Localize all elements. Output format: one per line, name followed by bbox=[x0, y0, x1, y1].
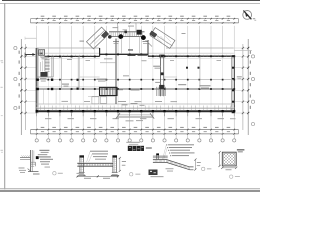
inner frame left gray line bbox=[4, 3, 6, 189]
north arrow symbol bbox=[243, 11, 252, 20]
entrance step dashes bbox=[113, 41, 119, 43]
detail 4 column section bbox=[222, 152, 236, 166]
stair flight hatch bbox=[45, 59, 50, 61]
east stair walls bbox=[159, 56, 161, 96]
south center text cluster bbox=[122, 103, 128, 106]
inner frame top gray line bbox=[0, 2, 260, 4]
west interior columns bbox=[37, 79, 39, 81]
lobby glazing verticals bbox=[121, 38, 123, 54]
bottom column grid bubbles bbox=[36, 134, 38, 139]
toilet room boxes bbox=[88, 95, 116, 97]
south room window jambs bbox=[43, 90, 45, 104]
corridor north edge line bbox=[36, 79, 234, 81]
lobby front wall bbox=[100, 53, 148, 55]
grid extension lines to side dimensions bbox=[21, 47, 36, 49]
detail 1 label bbox=[53, 172, 56, 175]
south window sill line bbox=[36, 103, 234, 105]
canopy edge line north bbox=[36, 47, 99, 49]
canopy center slab hatch bbox=[109, 31, 145, 33]
bottom dimension lines with ticks and figures bbox=[31, 129, 239, 131]
outer top dark border line bbox=[2, 0, 260, 2]
left entrance arrow bbox=[25, 54, 35, 56]
corridor south wall line bbox=[36, 88, 234, 90]
west second partition bbox=[77, 56, 79, 89]
north wall east wing bbox=[148, 55, 234, 57]
detail 3 label bbox=[202, 167, 205, 170]
north wall inner face line bbox=[45, 58, 100, 60]
window mullion marks bbox=[40, 55, 42, 57]
inner frame bottom gray line bbox=[0, 188, 260, 190]
left dimension lines with ticks bbox=[20, 39, 22, 135]
wing label specks bbox=[80, 41, 85, 42]
north wall west wing bbox=[45, 55, 100, 57]
detail 4 label bbox=[230, 175, 233, 178]
west side canopy line bbox=[25, 37, 36, 39]
east wall columns bbox=[232, 55, 234, 57]
stair room label text bbox=[41, 57, 49, 58]
canopy left wing bbox=[86, 27, 108, 49]
sheet background bbox=[0, 0, 260, 194]
outer bottom dark border line bbox=[0, 190, 260, 192]
left margin faint specks bbox=[1, 60, 3, 61]
east hall interior columns bbox=[186, 67, 188, 69]
lobby west step wall bbox=[99, 48, 101, 56]
canopy text specks bbox=[113, 26, 119, 29]
lobby label text bbox=[97, 79, 108, 80]
west room partition bbox=[61, 56, 63, 89]
west exterior wall bbox=[35, 48, 37, 113]
top dimension lines with ticks and figures bbox=[31, 18, 239, 20]
lobby interior line bbox=[100, 62, 116, 64]
corridor secondary line bbox=[36, 86, 116, 88]
east partition bbox=[199, 56, 201, 89]
entry porch box nw corner bbox=[39, 50, 45, 56]
plan title dark text block bbox=[128, 146, 144, 151]
detail 2 label bbox=[130, 173, 133, 176]
north wall columns bbox=[47, 56, 49, 58]
vestibule dark text row bbox=[128, 55, 136, 56]
south wall columns bbox=[36, 110, 38, 112]
south inner line bbox=[36, 107, 234, 109]
detail 2 slab section bbox=[79, 157, 81, 173]
east stair top wall blob bbox=[159, 55, 164, 58]
lobby east step wall bbox=[147, 40, 149, 56]
window sill line north bbox=[36, 52, 99, 54]
column grid vertical lines bbox=[36, 26, 38, 56]
room text specks bbox=[62, 84, 69, 85]
beam label specks row bbox=[118, 100, 126, 103]
east stair hatch bbox=[156, 87, 158, 96]
north rooms extra text specks bbox=[67, 58, 72, 61]
left grid bubbles bbox=[14, 46, 17, 49]
right grid bubbles bbox=[251, 55, 254, 58]
south exterior wall bbox=[36, 110, 234, 112]
stair room walls bbox=[51, 56, 53, 77]
east exterior wall bbox=[231, 55, 233, 113]
detail 1 wall section bbox=[30, 150, 32, 172]
bottom left margin specks bbox=[19, 167, 25, 170]
right dimension lines with ticks bbox=[242, 44, 244, 130]
south entrance steps bbox=[116, 113, 120, 118]
detail 3 ramp section bbox=[168, 144, 194, 145]
corridor columns bbox=[36, 88, 38, 90]
canopy dark blocks bbox=[119, 34, 123, 38]
lobby west wall vertical bbox=[115, 39, 117, 105]
core block hatched bbox=[100, 87, 118, 95]
canopy hanger lines bbox=[117, 23, 119, 32]
window tag specks row bbox=[45, 117, 51, 120]
north rooms partition line bbox=[80, 76, 100, 78]
south wall light line bbox=[36, 107, 234, 109]
canopy right wing bbox=[150, 28, 175, 49]
